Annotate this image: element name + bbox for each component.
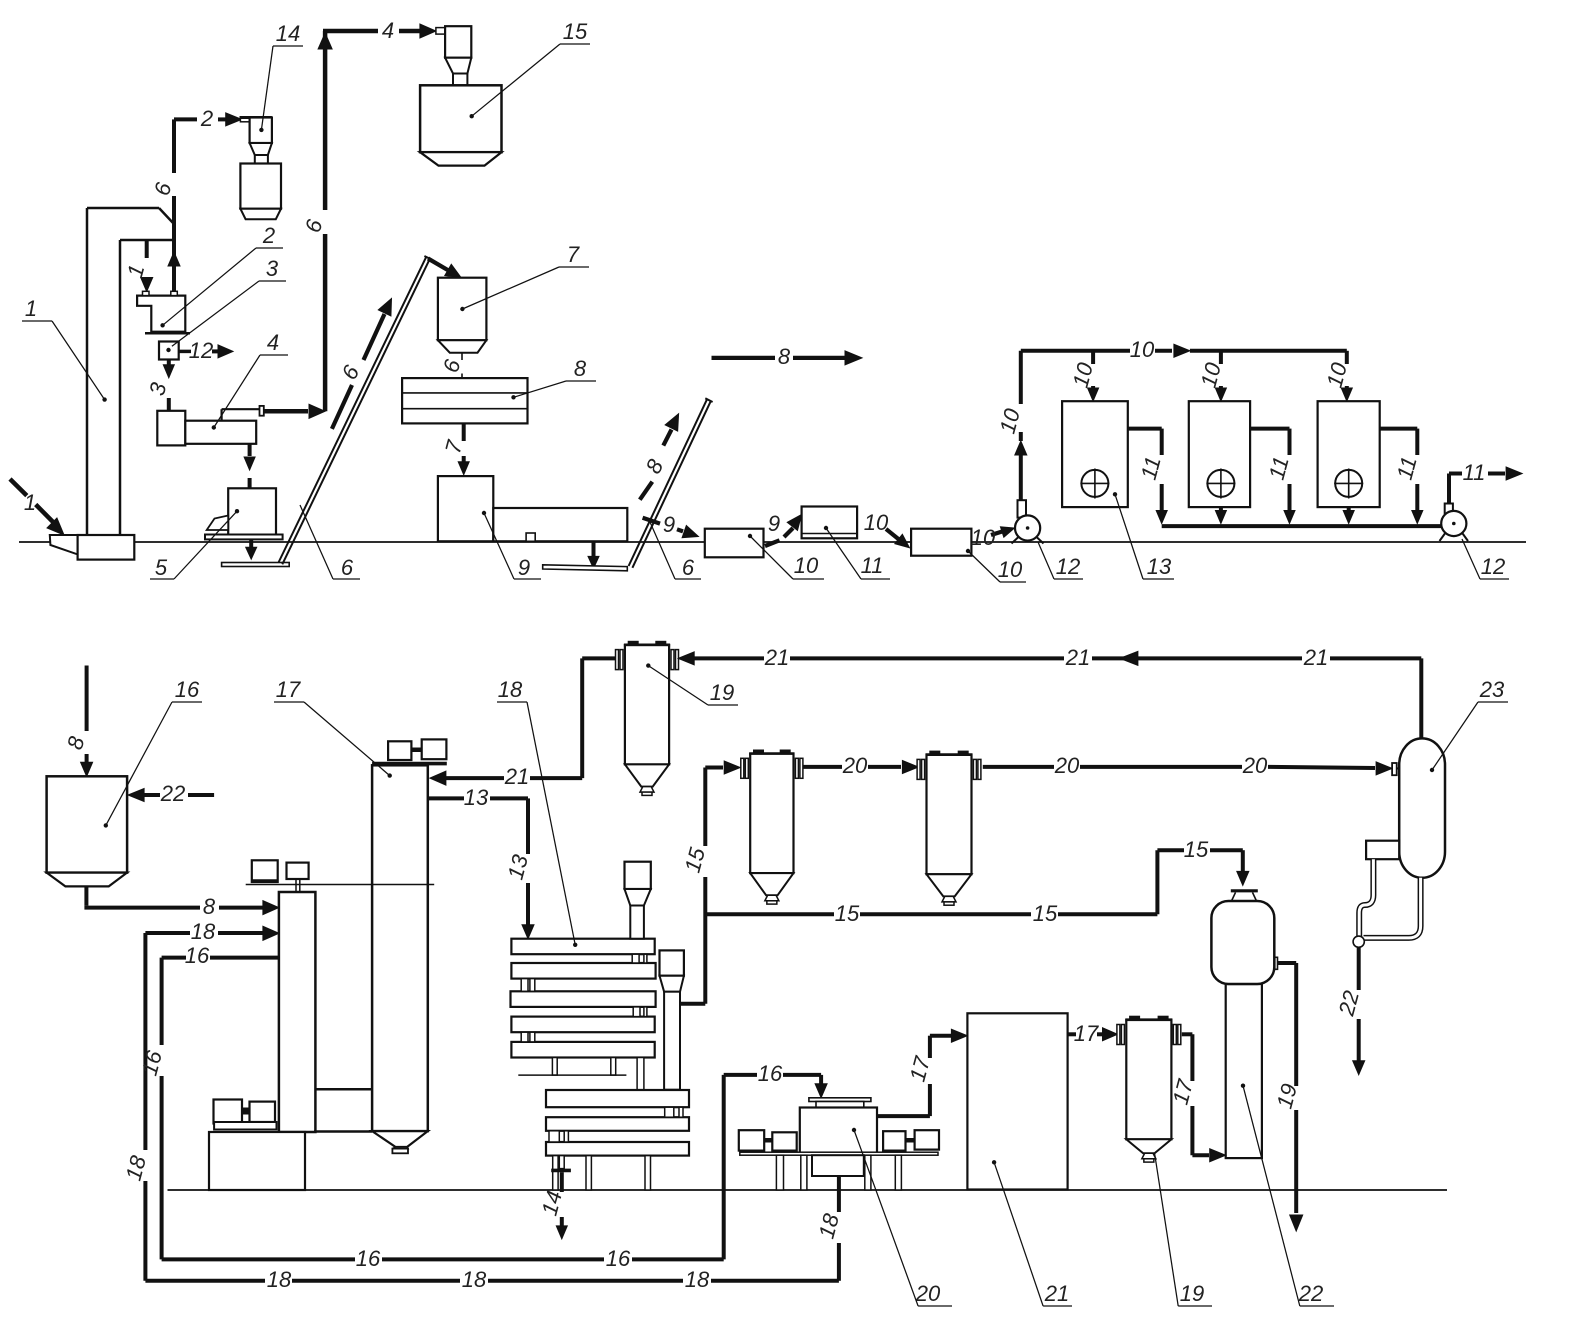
svg-text:13: 13 [1147, 554, 1172, 579]
svg-text:2: 2 [262, 223, 275, 248]
weigher 5 lever [207, 516, 229, 531]
heater 18 chimney 2 funnel [660, 976, 684, 992]
kettle 22 neck [1232, 892, 1236, 901]
line 2 to cyclone 14 [174, 117, 197, 121]
svg-text:2: 2 [200, 106, 213, 131]
svg-text:20: 20 [1054, 753, 1080, 778]
condensate trap circle [1353, 936, 1364, 947]
cyclone 19 second [1129, 1016, 1140, 1020]
arrow 5 to conveyor [249, 539, 253, 548]
bin 9 low part [493, 508, 627, 541]
svg-text:20: 20 [842, 753, 868, 778]
svg-text:19: 19 [1180, 1281, 1204, 1306]
svg-text:22: 22 [160, 781, 185, 806]
header line 10 over tanks [1021, 349, 1130, 353]
return main 18 bottom run [145, 1279, 265, 1283]
svg-text:5: 5 [155, 555, 168, 580]
heater 18 chimney 1 box [625, 862, 651, 889]
bin 9 tall part [438, 476, 493, 541]
heater 18 chimney 2 pipe [664, 992, 680, 1090]
cyclone 20 first [753, 750, 764, 754]
heater lower stubs right [665, 1107, 674, 1117]
heater 18 plate 5 [511, 1042, 654, 1058]
screw feeder 4 body [185, 421, 256, 444]
pump 12 right casing [1441, 511, 1466, 536]
svg-text:21: 21 [1303, 645, 1328, 670]
heater 18 chimney 2 box [660, 950, 684, 975]
kettle 22 body [1211, 901, 1274, 984]
svg-text:17: 17 [1074, 1021, 1099, 1046]
overflow pipe 11 from tank B [1250, 427, 1289, 431]
drain arrow 22 [1357, 947, 1361, 990]
ground line (bottom section) [168, 1189, 1448, 1191]
screw feeder 4 drive box [157, 411, 185, 446]
gate box 3 [159, 342, 179, 360]
pump 12 right feet [1440, 532, 1447, 541]
heater lower bar 3 [546, 1142, 689, 1156]
condenser tank 23 capsule [1399, 738, 1445, 877]
return main 16 left vertical [160, 958, 164, 1045]
svg-text:4: 4 [267, 330, 279, 355]
line 20 to tank 23 [983, 765, 1054, 769]
cyclone 19 (top) [628, 641, 639, 645]
thin platform line at dryer [246, 884, 435, 886]
svg-text:15: 15 [563, 19, 588, 44]
column 17 motor box A [388, 741, 411, 760]
cyclone 14 body [250, 118, 272, 144]
svg-text:16: 16 [185, 943, 210, 968]
bottom outlet tank C [1347, 507, 1351, 510]
svg-text:21: 21 [1044, 1281, 1069, 1306]
overflow pipe 11 from tank C [1380, 427, 1418, 431]
feed arrow 1 (raw material input) [10, 479, 27, 496]
bracket box on tank 23 [1366, 841, 1399, 860]
line 19 from kettle 22 [1278, 961, 1297, 965]
svg-text:15: 15 [1033, 901, 1058, 926]
box 10 first [705, 529, 764, 558]
ground line (top section) [19, 541, 1526, 543]
heater 18 stubs left 2-3 [521, 979, 528, 992]
svg-text:18: 18 [498, 677, 523, 702]
mixer 20 coupling right [906, 1138, 915, 1143]
mixer 20 legs [776, 1155, 783, 1190]
flow arrow 6 along conveyor [332, 385, 352, 429]
wire drop 1 into feeder 2 [145, 240, 149, 258]
column under kettle 22 [1226, 984, 1262, 1158]
motor base plate [214, 1122, 276, 1130]
svg-text:18: 18 [462, 1267, 487, 1292]
buffer tank 21 [967, 1013, 1067, 1189]
drop 10 into tank C [1345, 351, 1349, 364]
arrow 22 into tank 16 [128, 789, 144, 802]
drop 10 into tank A [1091, 351, 1095, 364]
drying column 17 lid [372, 762, 447, 766]
heater 18 plate 3 [511, 991, 656, 1007]
svg-text:15: 15 [835, 901, 860, 926]
mixer 20 motor right outer [915, 1130, 939, 1149]
svg-text:9: 9 [518, 555, 530, 580]
svg-text:19: 19 [710, 680, 734, 705]
mixer 20 neck [816, 1102, 864, 1108]
svg-text:21: 21 [1065, 645, 1090, 670]
line 17 mixer to tank 21 [877, 1114, 930, 1118]
roller mill 8 body [402, 378, 527, 423]
svg-text:17: 17 [276, 677, 301, 702]
return main 18 left vertical [143, 933, 147, 1150]
svg-text:6: 6 [682, 555, 695, 580]
box 10 second [911, 529, 971, 556]
kettle 22 neck lid [1231, 889, 1258, 892]
line 7 to mill 8 [461, 353, 463, 360]
heater 18 stubs right 1-2 [632, 954, 639, 963]
pump 12 left casing [1015, 515, 1040, 540]
svg-text:10: 10 [1130, 337, 1155, 362]
bin 9 bottom notch [526, 533, 535, 541]
svg-text:20: 20 [915, 1281, 941, 1306]
heater lower bar 1 [546, 1090, 689, 1107]
condensate arrow 14 [560, 1172, 564, 1192]
tank 23 bottom pipe loop [1364, 878, 1421, 938]
heater condensate outlet [559, 1156, 564, 1169]
svg-text:18: 18 [267, 1267, 292, 1292]
motor box B at riser bottom [250, 1102, 276, 1122]
pump 12 left feet [1012, 537, 1020, 544]
receiving box under tower 1 [78, 535, 135, 560]
pedestal under riser [209, 1132, 305, 1190]
dryer riser column (17 group) [279, 892, 316, 1132]
dryer riser top box right [287, 863, 309, 879]
line 13 column 17 to heater 18 [428, 796, 464, 800]
svg-text:10: 10 [864, 510, 889, 535]
riser pipe from feeder 2 to line 2 [172, 196, 176, 292]
arrow conveyor to hopper 7 [428, 259, 448, 271]
inclined conveyor 6b belt lines [629, 399, 707, 566]
svg-text:15: 15 [1184, 837, 1209, 862]
svg-text:1: 1 [24, 490, 36, 515]
motor box A at riser bottom [214, 1100, 243, 1124]
mixer 20 coupling left [764, 1138, 772, 1143]
heater 18 chimney 1 funnel [625, 889, 651, 906]
motor box 14 bottom skirt [240, 209, 281, 220]
svg-text:21: 21 [764, 645, 789, 670]
heater 18 stubs right 3-4 [633, 1007, 640, 1017]
wash tank 13 B [1189, 401, 1250, 507]
cyclone 14 neck [255, 155, 268, 164]
arrow 7 mill to bin 9 [462, 423, 466, 441]
svg-text:4: 4 [382, 18, 394, 43]
elevator tower 1 outer wall [86, 208, 89, 535]
pump 12 left stand [1018, 500, 1027, 517]
mixer 20 motor left outer [739, 1130, 764, 1150]
return line 21 into column 17 [430, 771, 446, 785]
svg-text:13: 13 [464, 785, 489, 810]
heater 18 plate 2 [511, 963, 655, 979]
mixer 20 lid [809, 1098, 871, 1102]
drying column 17 body [372, 765, 428, 1131]
screw feeder 4 flange [260, 406, 264, 416]
receiving chute wedge [50, 535, 78, 554]
heater lower bar 2 [546, 1117, 689, 1131]
flow arrow 10 into pump 12 [991, 531, 1003, 535]
svg-text:23: 23 [1479, 677, 1505, 702]
purge arrow 12 [179, 350, 191, 354]
svg-text:8: 8 [778, 344, 791, 369]
svg-text:11: 11 [861, 553, 884, 578]
hopper 7 body [438, 278, 487, 341]
heater 18 legs [552, 1058, 557, 1076]
bunker tank 15 bottom skirt [420, 152, 501, 165]
column 17 outlet flange [392, 1147, 408, 1149]
svg-text:10: 10 [794, 553, 819, 578]
bunker tank 15 body [420, 85, 501, 152]
svg-text:18: 18 [191, 919, 216, 944]
heater 18 plate 1 [511, 939, 654, 955]
weigher 5 base platform [205, 535, 283, 540]
heater 18 stubs left 4-5 [521, 1032, 528, 1042]
feeder 2 base bar [145, 332, 190, 335]
svg-text:8: 8 [574, 356, 587, 381]
svg-text:9: 9 [663, 512, 675, 537]
riser line 6 (pneumatic) [323, 234, 328, 411]
arrow 8 into tank 16 [85, 666, 89, 732]
svg-text:20: 20 [1242, 753, 1268, 778]
cyclone 15 upper body [445, 26, 471, 58]
mixer 20 motor right inner [883, 1131, 905, 1150]
svg-text:18: 18 [685, 1267, 710, 1292]
motor coupling [242, 1108, 250, 1115]
line 17 cyclone to column 22 [1182, 1032, 1193, 1036]
flow arrow 8 along conveyor 6b [640, 482, 653, 500]
svg-text:12: 12 [189, 338, 213, 363]
vapour line 21 long run [678, 652, 694, 665]
hopper 7 funnel [438, 340, 487, 353]
mill 8 inner lines [402, 392, 527, 394]
overflow pipe 11 from tank A [1128, 427, 1162, 431]
svg-text:16: 16 [606, 1246, 631, 1271]
svg-text:12: 12 [1056, 554, 1080, 579]
branch line 15 lower run [705, 912, 834, 916]
column 17 motor box B [422, 739, 447, 759]
dryer riser top box left [252, 860, 278, 882]
flow arrow 8 (to mixing section) [712, 356, 776, 360]
sieve 11 body [802, 507, 858, 539]
mixer 20 motor left inner [772, 1132, 796, 1150]
svg-text:10: 10 [971, 525, 996, 550]
conveyor 6 loading plate [222, 563, 290, 567]
feed tank 16 funnel [47, 873, 128, 887]
pump 12 right stand [1445, 504, 1453, 517]
flow arrow 9 up to sieve 11 [765, 540, 780, 546]
line 4 to cyclone 15 [323, 29, 378, 34]
discharge line 11 out [1447, 474, 1451, 504]
drop line 3 to feeder 4 [167, 360, 171, 367]
line 16 into mixer 20 [724, 1073, 757, 1077]
mixer 20 body [800, 1108, 877, 1153]
arrow bin 9 discharge [592, 541, 596, 556]
cyclone 15 cone [445, 58, 471, 74]
steam line 15 from heater chimney [681, 1002, 705, 1006]
line 16 into dryer riser [162, 956, 186, 960]
line 8 tank 16 to dryer riser [84, 886, 88, 905]
return main 16 bottom run [162, 1257, 355, 1261]
cyclone 14 cone [250, 143, 272, 155]
heater 18 base line [518, 1074, 626, 1076]
svg-text:3: 3 [266, 256, 279, 281]
kettle 22 side flange [1275, 957, 1278, 969]
wash tank 13 C [1318, 401, 1380, 507]
motor box under cyclone 14 [240, 164, 281, 209]
svg-text:14: 14 [276, 21, 300, 46]
svg-text:1: 1 [25, 296, 37, 321]
heater lower stubs left [549, 1131, 559, 1142]
collecting line 11 [1162, 524, 1441, 528]
feed tank 16 body [47, 776, 128, 872]
arrow 4 down to scale 5 [248, 444, 252, 456]
arrow feeder 4 into riser 6 [264, 409, 308, 414]
flow arrow 9 to box 10 [643, 518, 660, 524]
column 17 motor coupling [411, 748, 421, 753]
svg-text:22: 22 [1298, 1281, 1323, 1306]
line 20 between cyclones [804, 765, 843, 769]
cyclone 14 lid [240, 116, 272, 119]
heater lower legs [553, 1156, 558, 1190]
line 18 into dryer riser [145, 931, 190, 935]
cyclone 15 inlet [436, 28, 445, 34]
svg-text:12: 12 [1481, 554, 1505, 579]
svg-text:6: 6 [341, 555, 354, 580]
cyclone 15 neck [453, 74, 467, 86]
weigher 5 body [228, 488, 276, 536]
screw feeder 4 outlet pipe [221, 409, 223, 421]
elevator tower 1 inner wall [119, 240, 122, 535]
svg-text:11: 11 [1463, 460, 1486, 485]
flow arrow 10 to box 10b [886, 529, 899, 540]
wash tank 13 A [1062, 401, 1128, 507]
svg-text:7: 7 [567, 242, 580, 267]
column 17 funnel [372, 1131, 428, 1147]
svg-text:9: 9 [768, 511, 780, 536]
riser 10 from pump [1019, 455, 1023, 500]
svg-text:16: 16 [175, 677, 200, 702]
tank 23 inlet flange [1392, 763, 1397, 775]
drop 10 into tank B [1219, 351, 1223, 364]
mixer 20 lower box [812, 1155, 864, 1176]
cyclone 20 second [929, 751, 940, 755]
bottom outlet tank B [1219, 507, 1223, 510]
feeder 2 top pads [143, 291, 150, 295]
svg-text:16: 16 [356, 1246, 381, 1271]
mixer 20 platform [740, 1152, 938, 1155]
dryer riser top stem [295, 879, 297, 892]
line 17 tank 21 to cyclone 19b [1068, 1032, 1076, 1036]
conveyor 6b loading plate [543, 565, 628, 571]
svg-text:10: 10 [998, 557, 1023, 582]
inclined conveyor 6 belt lines [279, 257, 427, 563]
heater 18 chimney 1 pipe [630, 906, 644, 939]
svg-text:21: 21 [504, 764, 529, 789]
duct between riser and column 17 [315, 1088, 372, 1091]
heater 18 plate 4 [511, 1017, 654, 1033]
svg-text:16: 16 [758, 1061, 783, 1086]
svg-text:8: 8 [203, 894, 216, 919]
cyclone 14 inlet [240, 118, 249, 122]
feeder 2 body [137, 296, 185, 332]
